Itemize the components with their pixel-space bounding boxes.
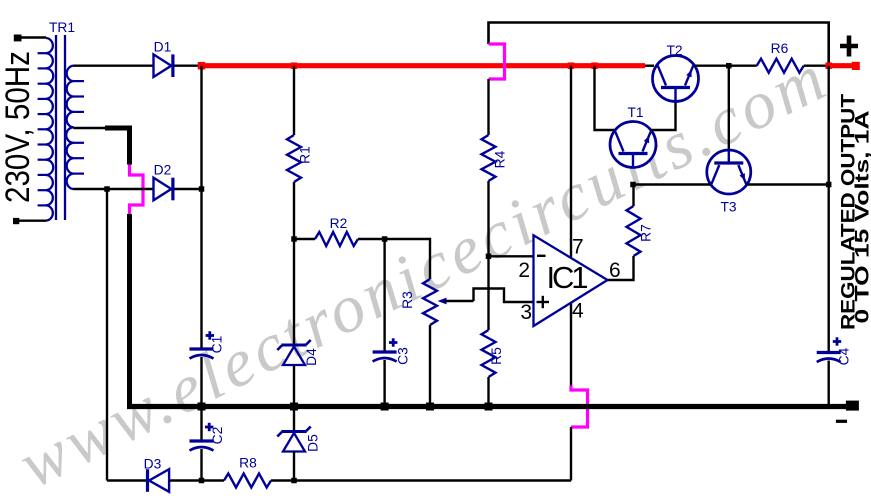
- node red rail at pin7 wire: [568, 62, 575, 68]
- svg-text:C3: C3: [396, 347, 411, 365]
- wire right rail upper: [828, 66, 830, 185]
- node C1 bus junction: [198, 403, 206, 411]
- wire R4 to pin2 junction: [487, 181, 489, 256]
- wire bus to C2: [200, 407, 202, 441]
- capacitor C2: [190, 439, 214, 442]
- svg-text:R7: R7: [639, 224, 654, 242]
- wire secondary top tap to D1: [74, 64, 154, 66]
- wire C2 to bottom row: [200, 449, 202, 481]
- node bottom tap junction: [104, 186, 110, 192]
- plus C2: [205, 426, 213, 429]
- minus input mark: [537, 255, 546, 257]
- wire left vertical to bottom row: [106, 189, 108, 481]
- node D2 cathode junction: [199, 186, 205, 192]
- svg-text:R1: R1: [298, 146, 313, 164]
- wire pin 2: [489, 255, 534, 257]
- wire T2 emitter to R6: [695, 64, 757, 66]
- wire R6 to right rail: [804, 64, 829, 66]
- svg-text:0 TO 15 Volts, 1A: 0 TO 15 Volts, 1A: [851, 111, 871, 324]
- plus C4: [833, 340, 841, 343]
- op-amp IC1: [534, 235, 608, 326]
- wire red positive rail: [202, 63, 646, 68]
- transistor T1: [610, 122, 656, 168]
- svg-text:R3: R3: [400, 291, 415, 309]
- transformer TR1 secondary winding: [66, 66, 84, 189]
- zener diode D4: [281, 344, 306, 347]
- svg-text:T3: T3: [720, 200, 736, 215]
- wire bottom row right: [294, 479, 571, 481]
- svg-text:C2: C2: [210, 427, 225, 445]
- wire D4 to bus: [293, 366, 295, 407]
- wire D3 to C2: [170, 479, 225, 481]
- plus C3: [389, 341, 397, 344]
- wire pin 7 from red rail: [570, 66, 572, 257]
- diode D2: [154, 178, 172, 201]
- wire primary top: [20, 36, 46, 38]
- svg-text:R5: R5: [489, 347, 504, 365]
- terminal output -: [846, 401, 859, 411]
- wire T3 emitter to right rail: [747, 183, 829, 185]
- resistor R8: [224, 474, 271, 488]
- wire magenta hop over ground bus: [571, 386, 588, 428]
- transistor T3: [707, 150, 751, 194]
- svg-text:6: 6: [609, 259, 621, 282]
- node right rail T3 junction: [826, 182, 832, 188]
- wire C-rail upper: [200, 66, 202, 189]
- wire C-rail to C1: [200, 189, 202, 348]
- capacitor C4: [817, 351, 841, 354]
- node D4 bus junction: [290, 403, 298, 411]
- svg-text:R4: R4: [493, 150, 508, 168]
- wire R2 left: [294, 238, 315, 240]
- wire R7 to T1 base junction: [632, 185, 634, 207]
- svg-text:3: 3: [520, 301, 532, 324]
- wire R2 junction to R3: [429, 238, 431, 279]
- wire wiper hop to pin 3: [474, 289, 534, 303]
- wire magenta hop over red rail: [489, 44, 505, 79]
- wire red rail to T2: [645, 64, 654, 66]
- wire pin 6 to R7: [608, 256, 634, 280]
- minus output sign: [836, 420, 847, 423]
- wire T1 collector from red rail: [595, 66, 616, 130]
- wire D5 to bottom row: [293, 452, 295, 481]
- wire C1 to bus: [200, 357, 202, 407]
- plus output sign: [840, 44, 858, 49]
- terminal bottom-left: [13, 218, 19, 224]
- svg-text:2: 2: [518, 259, 530, 282]
- plus input mark: [537, 301, 550, 303]
- zener diode D5: [281, 430, 306, 433]
- wire top frame: [489, 23, 829, 66]
- diode D3: [149, 469, 169, 492]
- wire T3 base up: [728, 66, 730, 151]
- transformer TR1 primary winding: [38, 38, 54, 221]
- node T1 base R7 junction: [630, 182, 636, 188]
- wire D1 cathode to red rail: [175, 64, 202, 66]
- node C3 bus junction: [381, 403, 389, 411]
- svg-text:D4: D4: [304, 348, 319, 366]
- resistor R2: [315, 232, 358, 246]
- wire C4 to bus: [828, 361, 830, 407]
- node red rail at T1 collector wire: [591, 62, 598, 68]
- resistor R4: [482, 135, 496, 181]
- wire bottom row left: [107, 479, 147, 481]
- node R3 bus junction: [426, 403, 434, 411]
- node R1 R2 D4 junction: [291, 236, 297, 242]
- svg-text:TR1: TR1: [49, 20, 75, 35]
- wire red rail to R1: [293, 66, 295, 135]
- wire primary bottom: [18, 219, 46, 221]
- wire R8 to D5: [271, 479, 294, 481]
- transformer core: [55, 35, 57, 220]
- resistor R5: [482, 330, 496, 377]
- wire R1 to R2 junction: [293, 182, 295, 239]
- wire D2 cathode to C-rail: [175, 188, 202, 190]
- wire thick ground bus: [127, 404, 846, 409]
- svg-text:R8: R8: [239, 456, 257, 471]
- svg-text:230V, 50Hz: 230V, 50Hz: [0, 51, 37, 203]
- wire C3 to bus: [383, 360, 385, 407]
- svg-text:D3: D3: [144, 456, 162, 471]
- resistor R1: [287, 135, 301, 182]
- node output + junction: [825, 62, 832, 68]
- svg-text:4: 4: [572, 300, 584, 323]
- node red rail at C-rail: [198, 62, 206, 69]
- svg-text:IC1: IC1: [547, 260, 589, 295]
- wire right rail to C4: [828, 185, 830, 352]
- svg-text:D5: D5: [306, 434, 321, 452]
- wire T1 emitter to T2 base: [651, 102, 676, 131]
- wire T1 base row to T3: [633, 183, 711, 185]
- wire red output stub: [829, 63, 852, 68]
- node R5 bus junction: [485, 403, 493, 411]
- svg-text:T1: T1: [627, 105, 643, 120]
- node R2 C3 junction: [382, 236, 388, 242]
- wire magenta hop over bottom-tap wire: [130, 165, 144, 215]
- node D5 bottom junction: [291, 478, 297, 484]
- potentiometer R3: [423, 279, 437, 325]
- resistor R7: [627, 206, 641, 256]
- wire center tap: [74, 127, 108, 129]
- svg-text:7: 7: [572, 236, 584, 259]
- wire thick center tap vertical upper: [127, 126, 132, 165]
- wire pin 4 down: [570, 303, 572, 386]
- svg-text:R6: R6: [771, 41, 789, 56]
- terminal top-left: [14, 35, 22, 42]
- wire pin 4 to bottom row: [570, 427, 572, 481]
- node T3 base junction: [726, 63, 732, 68]
- wire R2 right: [358, 238, 430, 240]
- terminal output +: [852, 62, 860, 70]
- wire bus to D5: [293, 407, 295, 431]
- wire secondary bottom tap to D2: [74, 188, 154, 190]
- wire hop to R4: [487, 79, 489, 135]
- wire thick center tap vertical lower: [127, 214, 132, 407]
- capacitor C1: [190, 347, 214, 350]
- wire R3 to bus: [429, 325, 431, 407]
- svg-text:D1: D1: [154, 39, 172, 54]
- wire R5 to bus: [487, 377, 489, 407]
- transistor T2: [653, 56, 699, 102]
- plus C1: [206, 334, 214, 337]
- wire thick center tap horizontal: [105, 126, 132, 131]
- svg-text:T2: T2: [666, 43, 682, 58]
- resistor R6: [757, 59, 804, 73]
- wire junction to D4: [293, 239, 295, 344]
- svg-text:R2: R2: [330, 216, 348, 231]
- node C2 bottom junction: [199, 478, 205, 484]
- capacitor C3: [373, 350, 397, 353]
- wiper arrow R3: [438, 298, 447, 305]
- wire C3 rail upper: [383, 239, 385, 351]
- svg-text:C1: C1: [210, 336, 225, 354]
- node red rail at R1: [291, 62, 298, 68]
- diode D1: [154, 54, 172, 77]
- svg-text:C4: C4: [837, 347, 852, 365]
- node R4 R5 pin2 junction: [486, 254, 492, 259]
- wire junction to R5: [487, 256, 489, 330]
- svg-text:D2: D2: [154, 162, 172, 177]
